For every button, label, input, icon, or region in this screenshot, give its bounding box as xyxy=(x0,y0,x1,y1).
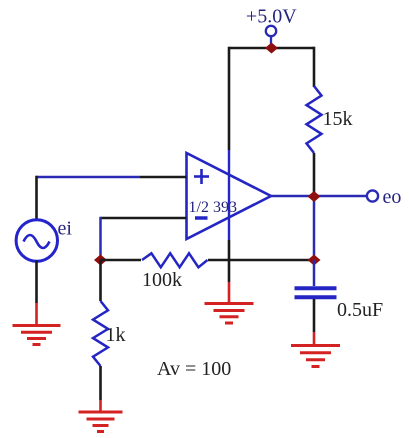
source ei (sine circle) xyxy=(16,220,57,261)
wire: node A to 100k xyxy=(101,259,142,262)
op-amp plus input symbol xyxy=(194,175,209,178)
ground (capacitor) xyxy=(291,346,340,367)
node: filter junction dot xyxy=(308,255,321,266)
wire: capacitor bottom lead xyxy=(313,299,316,332)
capacitor 0.5uF (plates) xyxy=(295,286,337,290)
wire: 100k to output node xyxy=(208,259,314,262)
wire: left vertical to source xyxy=(35,176,38,219)
wire: supply line through op-amp (V+ pin to GND pin) xyxy=(228,150,230,240)
wire: plus input (left horizontal) xyxy=(37,176,141,179)
terminal +5V (open circle) xyxy=(266,26,276,36)
ground (source) xyxy=(13,326,61,345)
svg-text:15k: 15k xyxy=(323,108,353,130)
node A junction dot xyxy=(94,255,107,266)
ground (1k) xyxy=(79,412,123,432)
resistor 1k (zigzag) xyxy=(93,301,108,366)
svg-text:Av = 100: Av = 100 xyxy=(157,358,231,380)
svg-text:0.5uF: 0.5uF xyxy=(337,299,383,321)
svg-text:100k: 100k xyxy=(142,269,182,291)
svg-text:ei: ei xyxy=(58,218,73,240)
wire: left supply drop to op-amp V+ xyxy=(228,47,231,150)
ground (op-amp) xyxy=(205,304,254,324)
svg-text:1k: 1k xyxy=(106,324,126,346)
op-amp minus input symbol xyxy=(195,216,208,220)
wire: op-amp output to node xyxy=(271,195,314,198)
wire: output node to eo terminal xyxy=(314,195,367,198)
wire: 15k bottom lead xyxy=(313,153,316,196)
resistor 100k (zigzag) xyxy=(142,253,208,267)
resistor 15k (zigzag) xyxy=(307,86,322,153)
wire: 1k bottom lead xyxy=(99,366,102,400)
wire: +5V rail top xyxy=(229,47,314,50)
wire: right rail drop to 15k xyxy=(313,47,316,87)
svg-text:+5.0V: +5.0V xyxy=(246,6,297,28)
terminal eo (open circle) xyxy=(367,190,378,201)
wire: output node down to filter node xyxy=(313,196,316,260)
wire: minus input vertical link xyxy=(99,217,102,260)
junction dot +5V rail xyxy=(265,43,278,54)
wire: +5V terminal stub xyxy=(270,36,272,45)
op-amp U1 triangle xyxy=(187,153,272,239)
node: output junction dot xyxy=(308,191,321,202)
svg-text:eo: eo xyxy=(383,186,402,208)
wire: filter node to capacitor xyxy=(313,260,316,286)
wire: node A down to 1k xyxy=(99,260,102,301)
wire: minus input horizontal xyxy=(101,217,187,220)
wire: source bottom lead xyxy=(35,261,38,304)
